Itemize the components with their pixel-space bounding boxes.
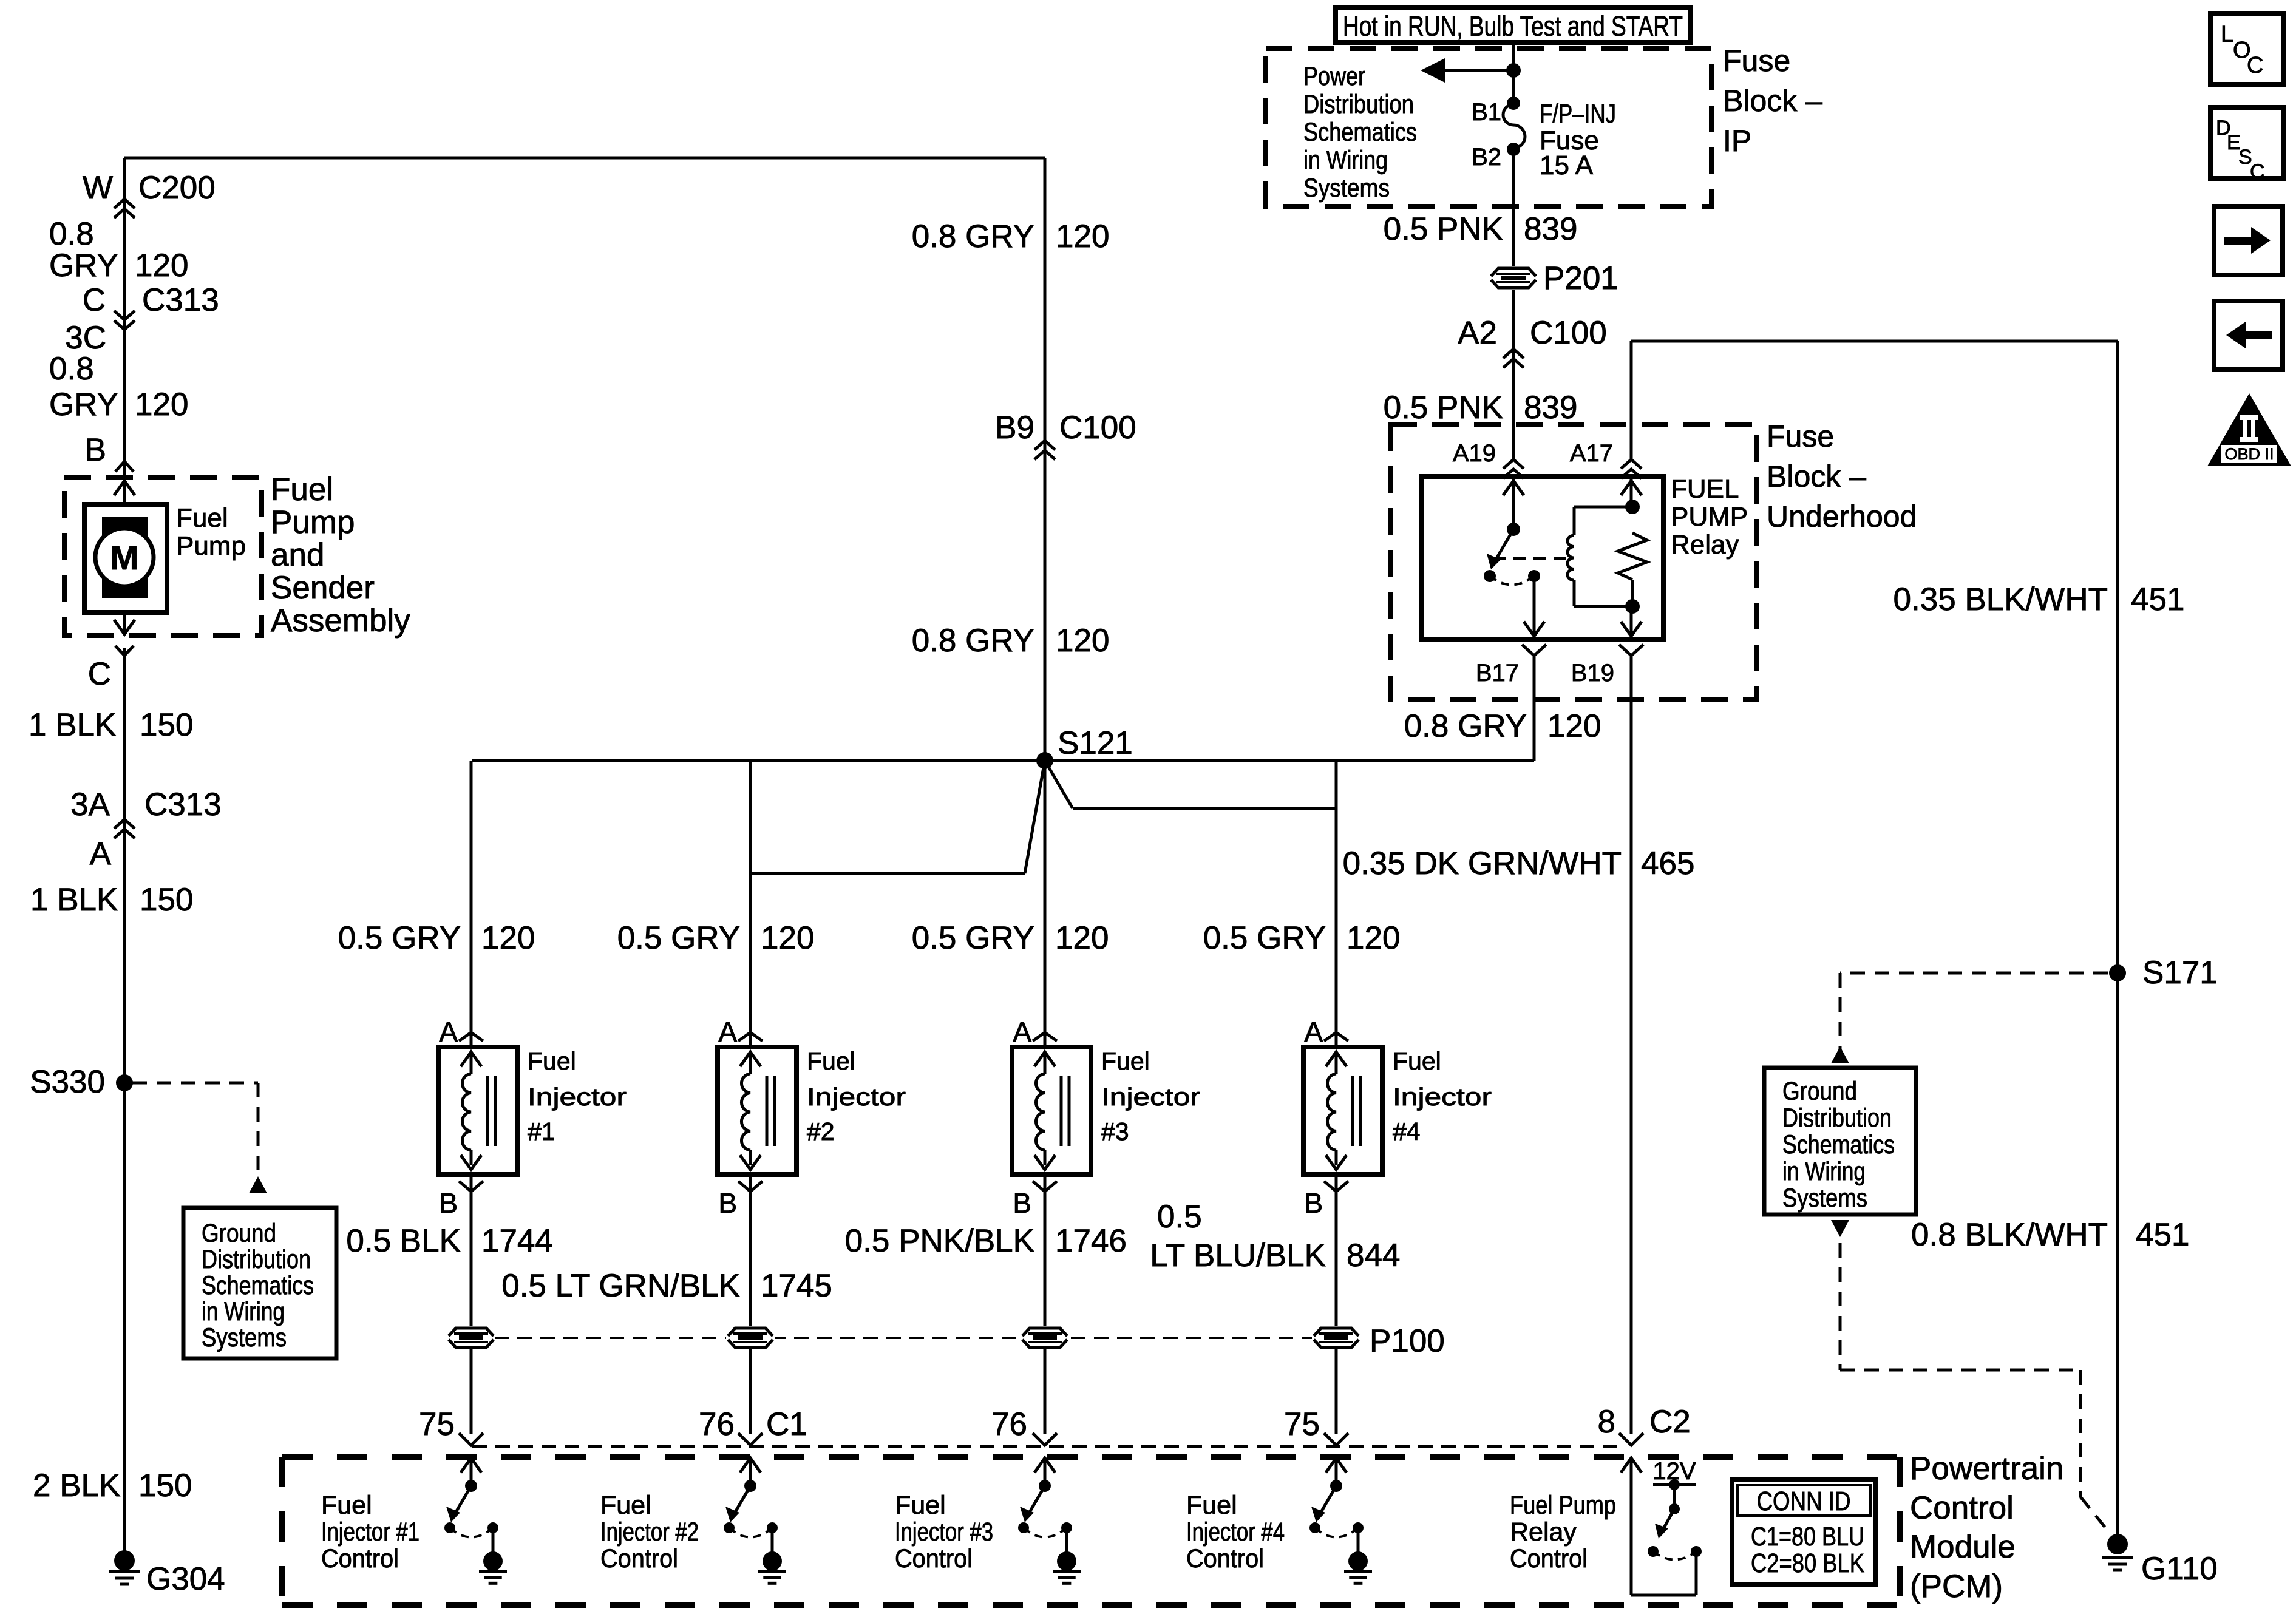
svg-text:Systems: Systems — [1303, 174, 1390, 203]
svg-text:C: C — [2247, 53, 2263, 78]
svg-text:451: 451 — [2136, 1217, 2189, 1253]
svg-text:PUMP: PUMP — [1671, 502, 1748, 532]
svg-text:Control: Control — [600, 1544, 678, 1573]
svg-text:A17: A17 — [1570, 440, 1613, 467]
svg-text:2 BLK: 2 BLK — [33, 1468, 120, 1503]
svg-text:Schematics: Schematics — [1303, 118, 1417, 147]
svg-text:P100: P100 — [1370, 1323, 1445, 1359]
svg-text:0.5 PNK: 0.5 PNK — [1384, 211, 1503, 247]
svg-text:465: 465 — [1641, 846, 1694, 881]
svg-text:Fuel: Fuel — [176, 503, 228, 533]
svg-text:C313: C313 — [144, 787, 222, 822]
svg-text:Fuel: Fuel — [321, 1491, 372, 1520]
svg-text:C2=80 BLK: C2=80 BLK — [1751, 1548, 1864, 1578]
svg-text:0.8 GRY: 0.8 GRY — [912, 219, 1034, 254]
svg-text:120: 120 — [1056, 623, 1109, 659]
svg-text:C200: C200 — [138, 170, 216, 206]
svg-text:Fuse: Fuse — [1723, 44, 1790, 78]
svg-text:120: 120 — [1347, 920, 1400, 956]
svg-text:0.8: 0.8 — [49, 216, 94, 252]
svg-text:Pump: Pump — [176, 531, 246, 561]
svg-text:Control: Control — [321, 1544, 399, 1573]
svg-text:B: B — [85, 432, 106, 468]
svg-text:B: B — [718, 1187, 737, 1219]
svg-text:L: L — [2221, 22, 2233, 47]
svg-text:75: 75 — [419, 1406, 455, 1442]
svg-text:B: B — [1013, 1187, 1031, 1219]
svg-text:Power: Power — [1303, 62, 1365, 91]
svg-text:Control: Control — [1510, 1544, 1588, 1573]
svg-text:C100: C100 — [1059, 410, 1136, 446]
svg-text:C: C — [2250, 160, 2265, 183]
svg-text:8: 8 — [1598, 1404, 1615, 1440]
svg-text:P201: P201 — [1543, 260, 1618, 296]
svg-text:0.5 PNK/BLK: 0.5 PNK/BLK — [845, 1223, 1034, 1259]
svg-text:A19: A19 — [1453, 440, 1496, 467]
svg-text:Fuel: Fuel — [600, 1491, 651, 1520]
svg-text:Distribution: Distribution — [1782, 1103, 1892, 1133]
svg-text:in Wiring: in Wiring — [202, 1297, 285, 1326]
svg-text:in Wiring: in Wiring — [1782, 1157, 1866, 1186]
svg-text:#3: #3 — [1101, 1117, 1129, 1145]
svg-text:1746: 1746 — [1055, 1223, 1127, 1259]
svg-text:C1: C1 — [766, 1406, 807, 1442]
svg-text:Assembly: Assembly — [271, 603, 410, 639]
svg-text:Hot in RUN, Bulb Test and STAR: Hot in RUN, Bulb Test and START — [1343, 10, 1683, 42]
svg-text:B2: B2 — [1472, 144, 1501, 171]
svg-text:A2: A2 — [1458, 315, 1497, 351]
svg-text:Module: Module — [1910, 1529, 2016, 1565]
svg-text:Pump: Pump — [271, 504, 355, 540]
svg-text:in Wiring: in Wiring — [1303, 146, 1388, 175]
svg-text:0.35 BLK/WHT: 0.35 BLK/WHT — [1894, 581, 2108, 617]
svg-text:451: 451 — [2131, 581, 2184, 617]
svg-text:B19: B19 — [1571, 660, 1614, 686]
svg-text:Fuel Pump: Fuel Pump — [1510, 1491, 1616, 1520]
svg-text:Injector #3: Injector #3 — [895, 1517, 993, 1547]
svg-text:0.8 BLK/WHT: 0.8 BLK/WHT — [1911, 1217, 2108, 1253]
svg-text:#2: #2 — [807, 1117, 835, 1145]
svg-text:120: 120 — [135, 248, 188, 283]
svg-text:S121: S121 — [1058, 725, 1133, 761]
svg-text:Relay: Relay — [1510, 1517, 1577, 1547]
svg-text:A: A — [718, 1016, 737, 1048]
svg-text:Block –: Block – — [1767, 459, 1866, 493]
svg-text:Injector #2: Injector #2 — [600, 1517, 699, 1547]
svg-text:S330: S330 — [30, 1064, 105, 1100]
svg-text:IP: IP — [1723, 124, 1751, 158]
svg-text:1 BLK: 1 BLK — [30, 882, 118, 918]
svg-text:Systems: Systems — [1782, 1184, 1867, 1213]
svg-text:Block –: Block – — [1723, 84, 1822, 118]
svg-text:B17: B17 — [1476, 660, 1519, 686]
svg-text:LT BLU/BLK: LT BLU/BLK — [1150, 1238, 1326, 1273]
svg-text:B: B — [439, 1187, 458, 1219]
svg-text:Distribution: Distribution — [1303, 90, 1414, 119]
svg-text:0.5 LT GRN/BLK: 0.5 LT GRN/BLK — [501, 1268, 740, 1304]
svg-text:120: 120 — [1056, 219, 1109, 254]
svg-text:W: W — [83, 170, 113, 206]
svg-text:0.35 DK GRN/WHT: 0.35 DK GRN/WHT — [1343, 846, 1622, 881]
svg-text:Powertrain: Powertrain — [1910, 1451, 2063, 1486]
svg-text:Fuel: Fuel — [895, 1491, 946, 1520]
svg-text:Distribution: Distribution — [202, 1245, 311, 1274]
svg-text:C2: C2 — [1649, 1404, 1691, 1440]
svg-text:Fuse: Fuse — [1767, 419, 1834, 453]
svg-text:G110: G110 — [2141, 1551, 2218, 1587]
svg-text:Relay: Relay — [1671, 530, 1739, 560]
svg-text:Systems: Systems — [202, 1323, 287, 1352]
svg-text:0.8 GRY: 0.8 GRY — [912, 623, 1034, 659]
svg-text:Fuel: Fuel — [528, 1047, 576, 1075]
svg-text:0.5 GRY: 0.5 GRY — [912, 920, 1034, 956]
svg-text:0.5 GRY: 0.5 GRY — [1203, 920, 1326, 956]
svg-text:Schematics: Schematics — [202, 1271, 314, 1300]
svg-text:A: A — [90, 836, 112, 872]
svg-text:C100: C100 — [1530, 315, 1607, 351]
svg-text:OBD II: OBD II — [2224, 445, 2274, 463]
svg-text:Fuel: Fuel — [271, 472, 333, 507]
svg-text:76: 76 — [699, 1406, 735, 1442]
svg-text:GRY: GRY — [49, 387, 118, 422]
svg-text:Control: Control — [1910, 1490, 2014, 1526]
svg-text:C1=80 BLU: C1=80 BLU — [1751, 1522, 1864, 1551]
svg-text:Schematics: Schematics — [1782, 1130, 1895, 1159]
svg-text:0.5: 0.5 — [1157, 1199, 1202, 1235]
svg-text:M: M — [110, 538, 139, 577]
svg-text:Injector: Injector — [1101, 1083, 1200, 1111]
svg-text:Underhood: Underhood — [1767, 500, 1917, 534]
svg-text:Injector #4: Injector #4 — [1186, 1517, 1285, 1547]
svg-text:0.8: 0.8 — [49, 351, 94, 387]
svg-text:Fuel: Fuel — [1186, 1491, 1237, 1520]
svg-text:120: 120 — [1055, 920, 1109, 956]
svg-text:Ground: Ground — [202, 1219, 276, 1248]
svg-text:120: 120 — [761, 920, 814, 956]
svg-text:A: A — [1013, 1016, 1031, 1048]
svg-text:Control: Control — [1186, 1544, 1264, 1573]
svg-text:120: 120 — [135, 387, 188, 422]
svg-text:GRY: GRY — [49, 248, 118, 283]
svg-text:A: A — [1304, 1016, 1323, 1048]
svg-text:1 BLK: 1 BLK — [29, 707, 116, 743]
svg-text:15 A: 15 A — [1540, 151, 1594, 180]
svg-text:C: C — [88, 656, 111, 692]
svg-text:C313: C313 — [142, 282, 219, 318]
svg-text:Injector: Injector — [807, 1083, 906, 1111]
svg-text:0.5 BLK: 0.5 BLK — [346, 1223, 461, 1259]
svg-text:Fuel: Fuel — [807, 1047, 855, 1075]
svg-text:150: 150 — [140, 882, 193, 918]
svg-text:Injector: Injector — [528, 1083, 627, 1111]
svg-text:3A: 3A — [70, 787, 110, 822]
svg-text:B9: B9 — [995, 410, 1034, 446]
svg-text:G304: G304 — [146, 1561, 225, 1597]
svg-text:1744: 1744 — [481, 1223, 553, 1259]
svg-text:844: 844 — [1347, 1238, 1400, 1273]
svg-text:B: B — [1304, 1187, 1323, 1219]
svg-text:Injector #1: Injector #1 — [321, 1517, 419, 1547]
svg-text:0.5 GRY: 0.5 GRY — [338, 920, 461, 956]
svg-text:0.5 PNK: 0.5 PNK — [1384, 390, 1503, 425]
svg-text:C: C — [83, 282, 106, 318]
svg-text:120: 120 — [1547, 708, 1601, 744]
svg-text:Injector: Injector — [1393, 1083, 1492, 1111]
svg-text:#4: #4 — [1393, 1117, 1421, 1145]
svg-text:#1: #1 — [528, 1117, 555, 1145]
svg-text:0.5 GRY: 0.5 GRY — [617, 920, 740, 956]
svg-text:150: 150 — [138, 1468, 192, 1503]
svg-text:150: 150 — [140, 707, 193, 743]
svg-text:B1: B1 — [1472, 99, 1501, 126]
svg-text:120: 120 — [481, 920, 535, 956]
svg-text:839: 839 — [1524, 390, 1577, 425]
svg-text:0.8 GRY: 0.8 GRY — [1404, 708, 1527, 744]
svg-text:S171: S171 — [2142, 955, 2218, 991]
svg-text:1745: 1745 — [761, 1268, 832, 1304]
svg-text:FUEL: FUEL — [1671, 474, 1739, 504]
svg-text:A: A — [439, 1016, 458, 1048]
svg-text:and: and — [271, 537, 324, 573]
svg-text:Sender: Sender — [271, 570, 375, 606]
svg-text:CONN ID: CONN ID — [1757, 1486, 1851, 1516]
svg-text:839: 839 — [1524, 211, 1577, 247]
svg-text:F/P–INJ: F/P–INJ — [1540, 99, 1616, 129]
svg-text:Control: Control — [895, 1544, 973, 1573]
svg-text:75: 75 — [1284, 1406, 1320, 1442]
svg-text:76: 76 — [991, 1406, 1027, 1442]
svg-text:Ground: Ground — [1782, 1077, 1857, 1106]
svg-text:Fuel: Fuel — [1393, 1047, 1441, 1075]
svg-text:Fuel: Fuel — [1101, 1047, 1150, 1075]
svg-text:(PCM): (PCM) — [1910, 1568, 2003, 1604]
